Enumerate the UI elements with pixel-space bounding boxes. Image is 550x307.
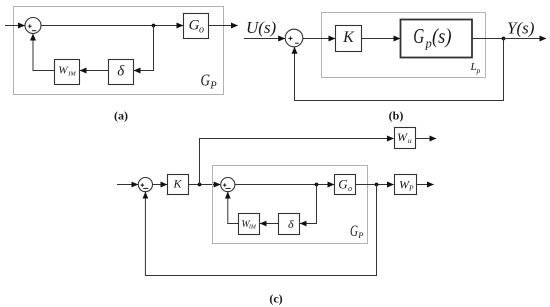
wire delta to WIM bbox=[80, 70, 109, 72]
wire S1a to Go bbox=[41, 25, 183, 27]
block Go (a) bbox=[184, 14, 209, 39]
block K (b) bbox=[336, 26, 362, 52]
wire node N1c up to Wu bbox=[200, 139, 394, 185]
node N3c bbox=[375, 183, 379, 187]
wire Wp output bbox=[417, 184, 434, 186]
summing junction S2c bbox=[221, 178, 235, 192]
wire input (a) bbox=[5, 25, 25, 27]
svg-text:P: P bbox=[209, 81, 217, 92]
svg-text:p: p bbox=[476, 66, 481, 75]
wire delta to WIM (c) bbox=[260, 223, 278, 225]
wire node N1a down to delta bbox=[134, 26, 154, 71]
svg-text:u: u bbox=[408, 136, 412, 145]
svg-text:o: o bbox=[199, 25, 204, 36]
svg-text:P: P bbox=[408, 183, 414, 192]
node N1c bbox=[198, 183, 202, 187]
svg-text:Y(s): Y(s) bbox=[507, 19, 535, 38]
svg-text:p: p bbox=[425, 37, 432, 51]
wire S2c to Go bbox=[235, 184, 334, 186]
summing junction S1a bbox=[25, 18, 41, 34]
svg-text:W: W bbox=[397, 130, 408, 144]
svg-text:(s): (s) bbox=[432, 24, 452, 48]
svg-text:(b): (b) bbox=[389, 109, 404, 123]
container box L_p bbox=[322, 13, 486, 78]
summing junction S1b bbox=[285, 29, 303, 47]
svg-text:IM: IM bbox=[67, 70, 76, 77]
svg-text:P: P bbox=[357, 230, 363, 240]
block Gp(s) bbox=[401, 20, 473, 58]
block Wp bbox=[395, 175, 417, 195]
wire K to Gp bbox=[362, 38, 401, 40]
wire input (c) bbox=[117, 184, 138, 186]
block WIM (a) bbox=[55, 60, 80, 85]
wire K to S2c bbox=[189, 184, 221, 186]
svg-text:K: K bbox=[172, 177, 182, 191]
label L_p bbox=[470, 61, 481, 75]
wire WIM to S2c bbox=[228, 192, 239, 223]
wire feedback (b) bbox=[295, 39, 504, 101]
svg-text:δ: δ bbox=[288, 217, 294, 231]
block Go (c) bbox=[335, 175, 356, 195]
container box G_P (c) bbox=[213, 166, 368, 244]
svg-text:G: G bbox=[201, 71, 211, 90]
summing junction S1c bbox=[138, 178, 152, 192]
node N1a bbox=[152, 24, 156, 28]
wire S1b to K bbox=[303, 38, 335, 40]
svg-text:IM: IM bbox=[248, 225, 257, 231]
svg-text:G: G bbox=[189, 18, 200, 34]
wire S1c to K bbox=[153, 184, 168, 186]
node N2c bbox=[315, 183, 319, 187]
block delta (c) bbox=[279, 214, 300, 235]
block delta (a) bbox=[109, 60, 134, 85]
label G_P (a) bbox=[201, 71, 218, 92]
wire output (a) bbox=[209, 25, 238, 27]
wire Wu output bbox=[416, 138, 437, 140]
wire node N2c down to delta (c) bbox=[300, 185, 316, 224]
node N1b bbox=[502, 37, 506, 41]
wire input (b) bbox=[244, 38, 285, 40]
svg-text:(a): (a) bbox=[114, 109, 128, 123]
wire Go to Wp bbox=[356, 184, 394, 186]
svg-text:(c): (c) bbox=[269, 292, 282, 306]
wire node to output (b) bbox=[504, 38, 547, 40]
container box G_P (a) bbox=[14, 7, 224, 95]
svg-text:G: G bbox=[350, 223, 358, 240]
wire Gp to node bbox=[472, 38, 504, 40]
wire feedback (c) bbox=[145, 185, 376, 276]
svg-text:o: o bbox=[348, 184, 352, 193]
wire WIM to S1a bbox=[33, 34, 55, 71]
svg-text:K: K bbox=[342, 29, 355, 46]
svg-text:δ: δ bbox=[117, 64, 125, 80]
block Wu bbox=[395, 128, 416, 149]
block K (c) bbox=[168, 175, 189, 195]
svg-text:G: G bbox=[413, 24, 424, 48]
block WIM (c) bbox=[239, 214, 260, 235]
svg-text:U(s): U(s) bbox=[246, 18, 277, 37]
svg-text:W: W bbox=[58, 65, 68, 77]
label G_P (c) bbox=[350, 223, 364, 240]
svg-text:G: G bbox=[338, 176, 348, 191]
